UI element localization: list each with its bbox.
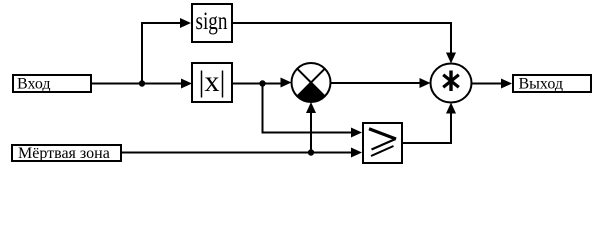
block "Мёртвая зона" dead-zone box <box>12 145 121 162</box>
wire comparator circle to multiplier left <box>331 82 421 84</box>
junction dot after |x| <box>259 80 265 86</box>
arrowhead into multiplier top <box>446 53 456 64</box>
wire dead-zone junction up to comparator circle bottom <box>310 112 312 153</box>
wire Вход to |x| <box>91 83 182 85</box>
block "sign" signum box <box>192 4 232 42</box>
wire multiplier to Выход <box>472 83 503 85</box>
wire sign to multiplier top <box>231 23 451 53</box>
block ">=" comparator box <box>363 123 402 163</box>
block "Выход" output box <box>513 75 591 93</box>
svg-text:sign: sign <box>196 8 228 35</box>
wire branch |x| down to >= upper input <box>263 84 353 133</box>
arrowhead into Выход <box>501 79 512 89</box>
arrowhead into comparator circle left <box>281 78 292 88</box>
junction dot on input wire <box>139 80 145 86</box>
arrowhead into sign <box>180 18 191 28</box>
arrowhead into >= upper input <box>351 128 362 138</box>
arrowhead into >= lower input <box>351 148 362 158</box>
arrowhead into comparator circle bottom <box>306 102 316 113</box>
wire >= output to multiplier bottom <box>401 113 451 143</box>
wire dead-zone to >= lower input <box>121 152 352 154</box>
multiplier circle with asterisk <box>431 64 472 103</box>
block "Вход" input box <box>13 75 91 93</box>
junction dot on dead-zone wire <box>308 149 314 155</box>
arrowhead into multiplier left <box>420 78 431 88</box>
svg-text:Выход: Выход <box>519 76 564 93</box>
arrowhead into |x| <box>181 79 192 89</box>
wire |x| to comparator circle <box>231 83 281 85</box>
arrowhead into multiplier bottom <box>446 103 456 114</box>
wire branch up to sign <box>142 23 181 84</box>
block "|x|" absolute-value box <box>192 63 232 102</box>
comparator circle X with filled bottom sector <box>292 63 331 102</box>
svg-text:|x|: |x| <box>198 65 225 98</box>
svg-text:Вход: Вход <box>17 76 51 93</box>
svg-text:Мёртвая зона: Мёртвая зона <box>18 145 110 162</box>
